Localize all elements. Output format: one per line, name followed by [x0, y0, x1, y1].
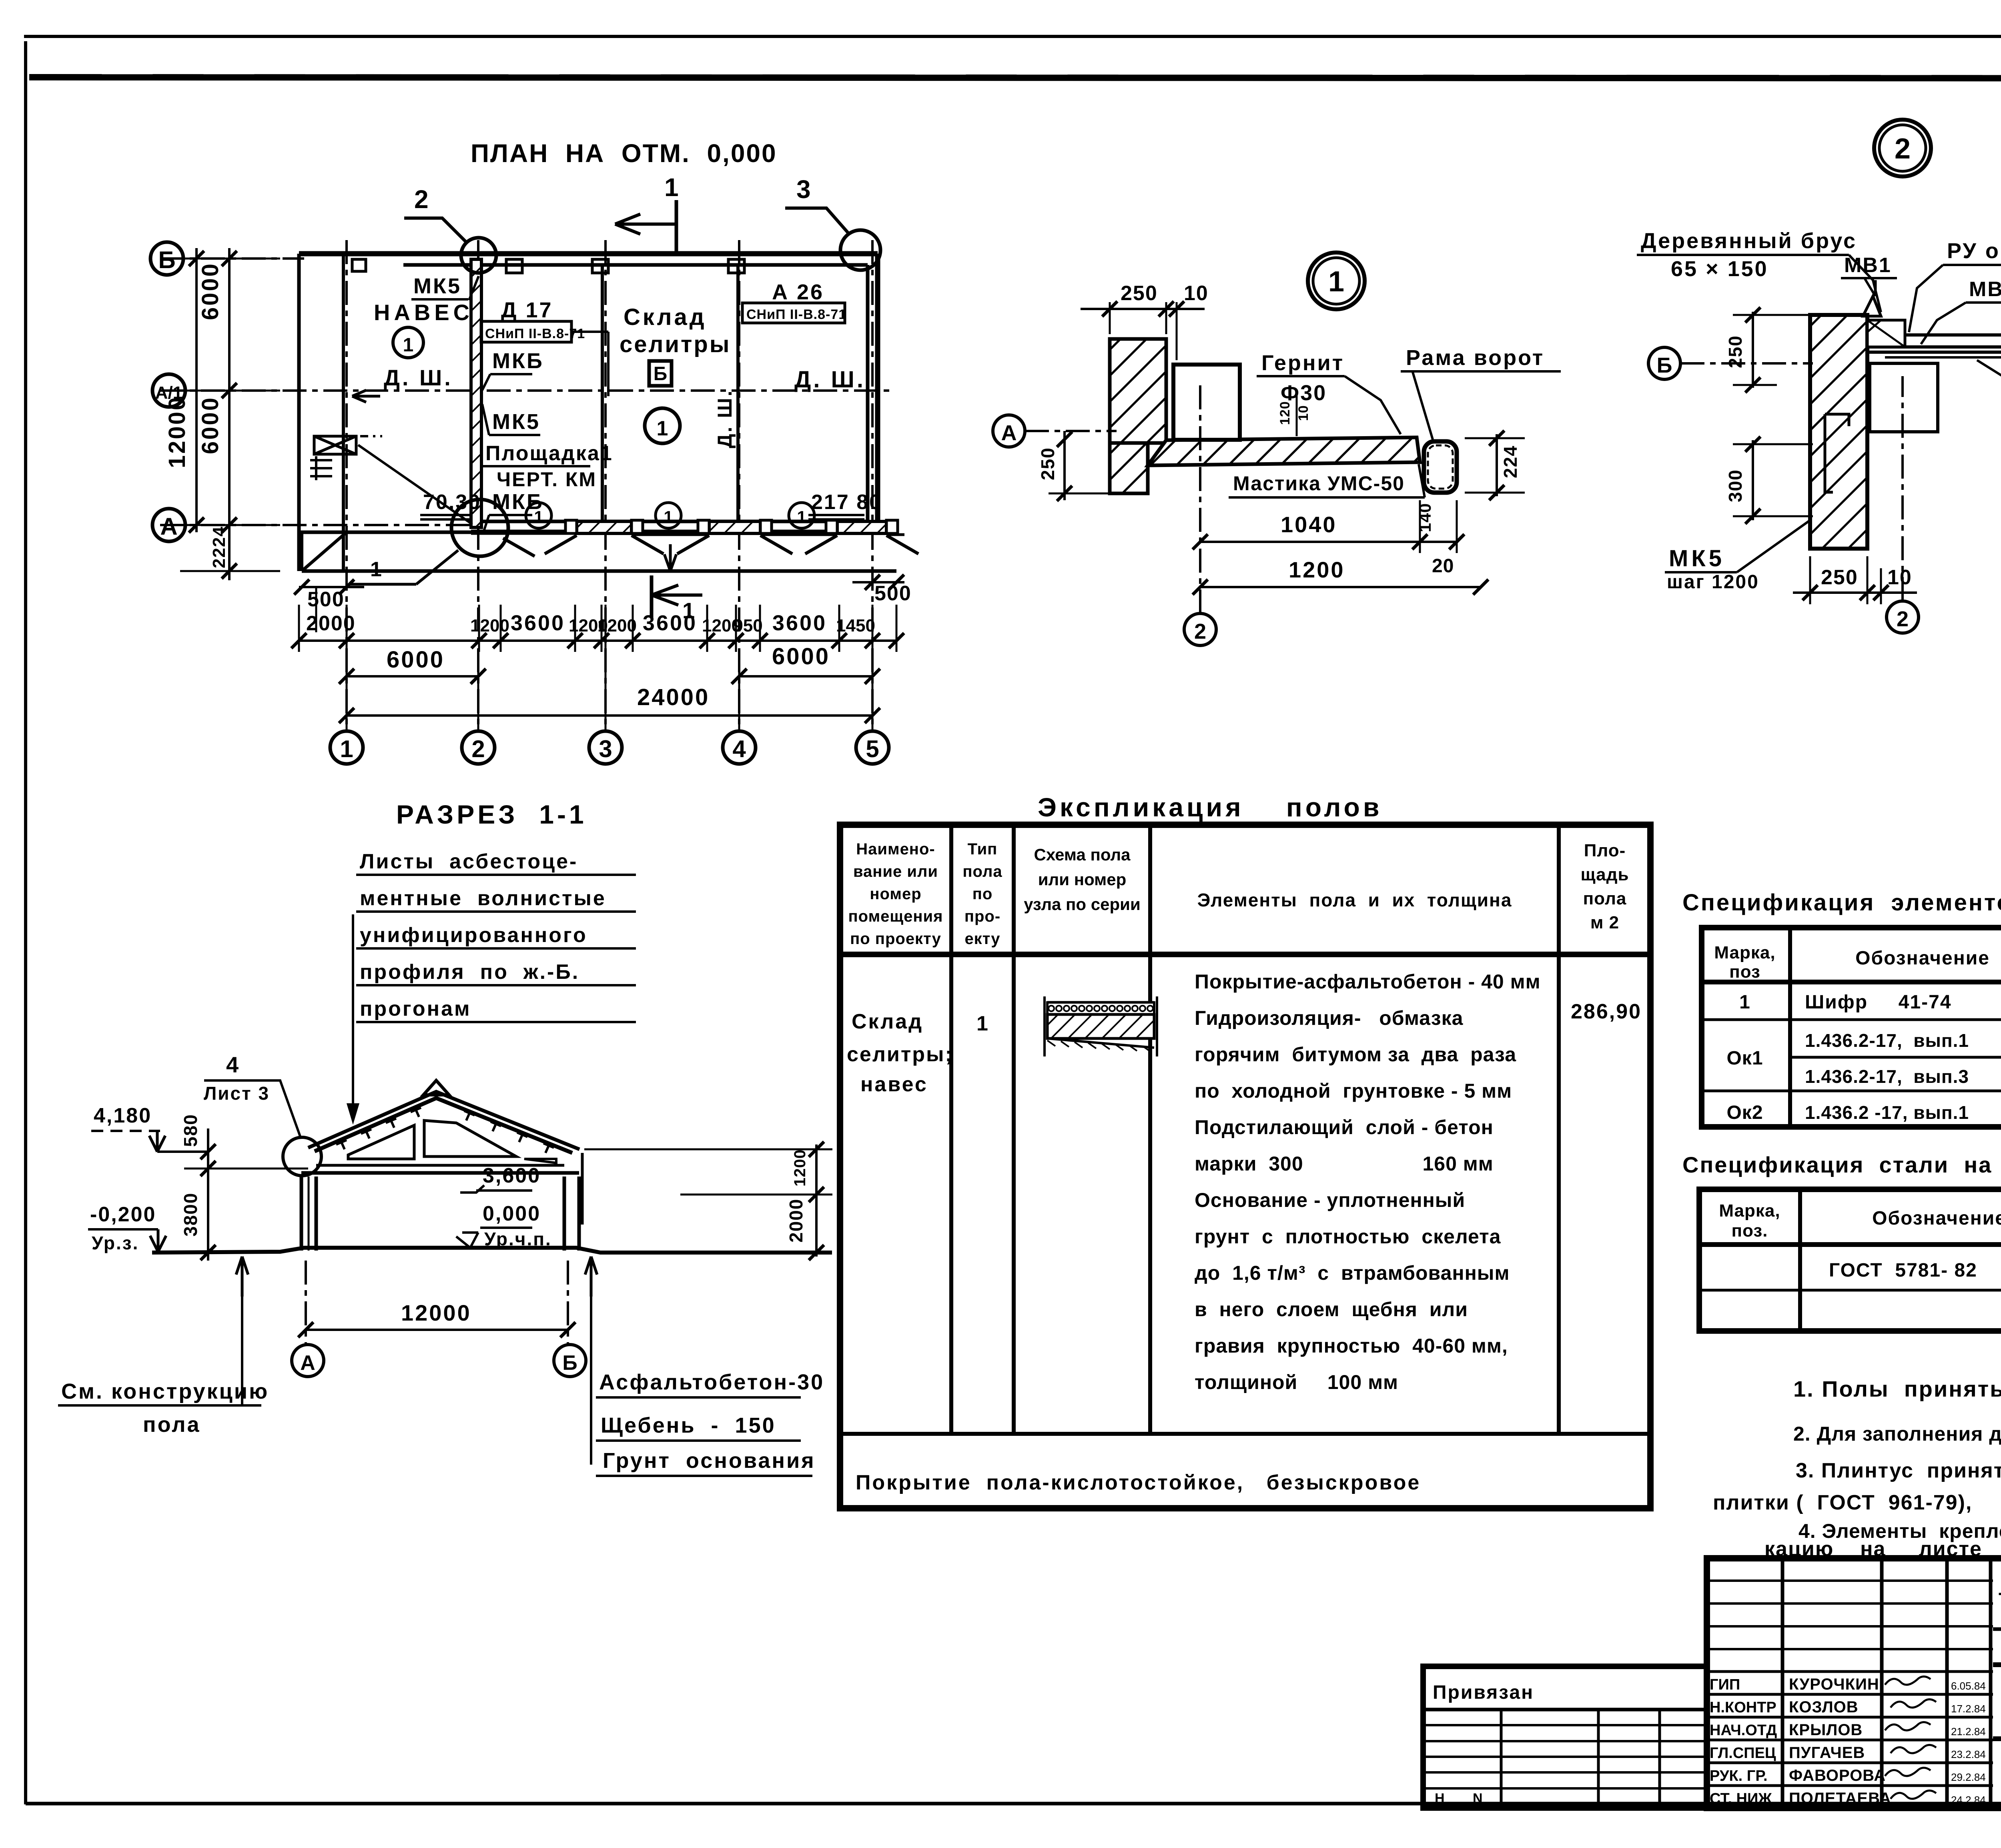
detail1 dim 224 right — [1496, 434, 1498, 496]
svg-text:екту: екту — [964, 930, 1000, 948]
svg-text:4,180: 4,180 — [94, 1104, 152, 1127]
svg-text:Б: Б — [562, 1351, 577, 1375]
big node circle at axis2/А — [451, 499, 508, 556]
svg-text:-0,200: -0,200 — [90, 1203, 156, 1226]
partition at axis 4 — [736, 265, 740, 521]
svg-text:Шифр 41-74: Шифр 41-74 — [1805, 992, 1952, 1013]
svg-text:помещения: помещения — [848, 908, 943, 925]
svg-text:21.2.84: 21.2.84 — [1951, 1726, 1986, 1738]
svg-text:СТ. НИЖ: СТ. НИЖ — [1710, 1790, 1772, 1807]
svg-text:МК5: МК5 — [413, 274, 461, 298]
svg-text:Пло-: Пло- — [1584, 841, 1626, 860]
svg-text:А: А — [1001, 421, 1017, 445]
svg-text:номер: номер — [870, 885, 921, 903]
detail2 axis Б circle — [1648, 347, 1680, 379]
detail1 axis А circle — [993, 415, 1025, 447]
svg-text:щадь: щадь — [1580, 865, 1629, 884]
svg-text:Схема пола: Схема пола — [1034, 845, 1131, 864]
svg-text:МКБ: МКБ — [492, 349, 544, 373]
svg-text:ГЛ.СПЕЦ: ГЛ.СПЕЦ — [1710, 1745, 1776, 1762]
plan top wall (double line) — [299, 251, 878, 257]
svg-text:6000: 6000 — [197, 396, 223, 454]
svg-text:217 80: 217 80 — [811, 491, 882, 514]
svg-text:1.436.2 -17, вып.1: 1.436.2 -17, вып.1 — [1805, 1102, 1969, 1123]
svg-text:шаг 1200: шаг 1200 — [1667, 571, 1759, 593]
svg-text:286,90: 286,90 — [1571, 1000, 1642, 1023]
svg-text:140: 140 — [1416, 503, 1434, 532]
column marks on top wall — [506, 259, 522, 273]
ground line — [152, 1248, 832, 1253]
svg-text:2000: 2000 — [306, 612, 356, 635]
СНиП label right — [742, 303, 845, 323]
svg-text:1.436.2-17, вып.3: 1.436.2-17, вып.3 — [1805, 1066, 1969, 1087]
СНиП box left — [481, 321, 571, 342]
signature grid verticals — [1781, 1558, 1784, 1808]
svg-text:1: 1 — [664, 507, 673, 526]
svg-text:3800: 3800 — [180, 1193, 201, 1237]
svg-text:м 2: м 2 — [1590, 913, 1619, 932]
leader from note to roof — [352, 914, 354, 1120]
svg-text:20: 20 — [1432, 555, 1454, 577]
svg-text:навес: навес — [860, 1073, 928, 1096]
svg-text:500: 500 — [307, 588, 345, 611]
svg-text:пола: пола — [962, 863, 1002, 880]
svg-text:Д 17: Д 17 — [501, 298, 553, 322]
svg-text:Наимено-: Наимено- — [856, 840, 935, 858]
right dims 1200/2000 — [815, 1144, 818, 1257]
svg-text:10: 10 — [1296, 405, 1311, 421]
detail2 white box below sash — [1870, 363, 1938, 432]
detail2 МВ1 bolt symbol — [1863, 296, 1881, 316]
svg-text:Привязан: Привязан — [1433, 1682, 1534, 1703]
svg-text:по: по — [972, 885, 993, 903]
svg-text:Лист 3: Лист 3 — [204, 1083, 270, 1104]
svg-text:Деревянный брус: Деревянный брус — [1641, 229, 1857, 253]
svg-text:Марка,: Марка, — [1719, 1201, 1780, 1221]
partition at axis 3 — [601, 265, 604, 521]
svg-text:1: 1 — [797, 507, 806, 526]
svg-text:250: 250 — [1037, 447, 1058, 480]
svg-text:грунт с плотностью скелета: грунт с плотностью скелета — [1195, 1225, 1501, 1248]
sheet outer border bottom line — [26, 1802, 2001, 1806]
svg-text:Б: Б — [654, 363, 668, 385]
svg-text:12000: 12000 — [401, 1300, 471, 1325]
left axis circle А — [152, 509, 185, 541]
bottom axis circles 1-5 — [330, 731, 363, 764]
plan right wall — [875, 254, 880, 532]
svg-text:МВ1: МВ1 — [1844, 254, 1892, 277]
svg-text:Д. Ш.: Д. Ш. — [384, 365, 453, 390]
svg-text:2: 2 — [1194, 619, 1206, 643]
detail1 axis 2 circle — [1184, 613, 1216, 645]
right column — [563, 1177, 566, 1251]
bottom dim row 6000 + 6000 — [347, 675, 478, 677]
svg-text:А: А — [300, 1351, 315, 1375]
svg-text:СНиП II-В.8-71: СНиП II-В.8-71 — [485, 326, 585, 341]
door threshold pads on bottom wall — [577, 521, 632, 533]
floor type circle 1 (навес) — [393, 327, 423, 358]
opening sill lines — [632, 533, 709, 536]
svg-text:1200: 1200 — [470, 616, 509, 635]
svg-text:6000: 6000 — [197, 262, 223, 320]
svg-text:3,600: 3,600 — [483, 1164, 541, 1187]
svg-text:КОЗЛОВ: КОЗЛОВ — [1789, 1698, 1859, 1716]
svg-text:по холодной грунтовке - 5 мм: по холодной грунтовке - 5 мм — [1195, 1080, 1512, 1102]
svg-text:2. Для заполнения деформационн: 2. Для заполнения деформационных швов пр… — [1793, 1423, 2001, 1445]
svg-text:3. Плинтус принять из керами: 3. Плинтус принять из керамической кисло… — [1796, 1459, 2001, 1482]
bottom dim row 2000 + bays — [299, 639, 896, 642]
explication table frame — [840, 825, 1650, 1508]
detail2 sash horizontal member — [1867, 335, 2001, 347]
hatched wall on axis 2 — [471, 259, 481, 527]
svg-text:6.05.84: 6.05.84 — [1951, 1680, 1986, 1692]
svg-text:в него слоем щебня или: в него слоем щебня или — [1195, 1298, 1468, 1321]
svg-text:Т.п 705-1-159 84: Т.п 705-1-159 84 — [1999, 1589, 2001, 1611]
svg-text:1: 1 — [682, 598, 695, 623]
section axis А circle — [292, 1345, 324, 1377]
left axis circle А/1 — [152, 374, 185, 407]
navес inner line at axis 1 — [342, 254, 345, 571]
svg-text:МК5: МК5 — [492, 410, 540, 434]
detail1 masonry wall hatched — [1110, 339, 1166, 443]
svg-text:КРЫЛОВ: КРЫЛОВ — [1789, 1721, 1863, 1739]
svg-text:1200: 1200 — [597, 616, 637, 635]
svg-text:1200: 1200 — [791, 1149, 809, 1187]
detail2 bracket inside wall — [1825, 414, 1849, 492]
axis Б dash-dot line — [160, 257, 304, 260]
svg-text:1: 1 — [403, 335, 414, 356]
svg-text:300: 300 — [1725, 469, 1746, 502]
spec2 table frame — [1699, 1189, 2001, 1331]
up arrow right at ground — [585, 1257, 597, 1297]
svg-text:Склад: Склад — [624, 304, 707, 330]
section mark 3 at top right — [840, 230, 880, 270]
svg-text:1040: 1040 — [1281, 512, 1337, 537]
left vertical dimension line 6000/6000/2224 — [228, 248, 231, 580]
svg-text:Покрытие пола-кислотостойкое,: Покрытие пола-кислотостойкое, безыскрово… — [856, 1471, 1421, 1494]
svg-text:ФАВОРОВА: ФАВОРОВА — [1789, 1767, 1886, 1784]
svg-text:1: 1 — [370, 558, 382, 581]
Б box — [649, 361, 672, 386]
truss web openings — [348, 1125, 414, 1159]
apex cap — [423, 1080, 449, 1095]
up arrow left at ground — [236, 1257, 248, 1297]
svg-text:прогонам: прогонам — [360, 997, 471, 1020]
bottom dim row 24000 — [347, 714, 872, 717]
svg-text:1: 1 — [534, 507, 543, 526]
svg-text:Гернит: Гернит — [1261, 351, 1344, 375]
svg-text:500: 500 — [874, 582, 912, 605]
svg-text:24000: 24000 — [637, 684, 710, 710]
svg-text:Покрытие-асфальтобетон - 40 мм: Покрытие-асфальтобетон - 40 мм — [1195, 970, 1541, 993]
svg-text:3: 3 — [796, 175, 811, 204]
svg-text:1.436.2-17, вып.1: 1.436.2-17, вып.1 — [1805, 1030, 1969, 1051]
svg-text:А: А — [160, 513, 177, 540]
roof purlin clips — [336, 1140, 347, 1149]
svg-text:23.2.84: 23.2.84 — [1951, 1748, 1986, 1760]
signature grid thin rows (top empty) — [1707, 1579, 1993, 1582]
svg-text:1: 1 — [664, 173, 679, 202]
sheet name row — [1993, 1736, 2001, 1741]
svg-text:6000: 6000 — [387, 647, 445, 673]
svg-text:580: 580 — [180, 1114, 201, 1147]
svg-text:Грунт основания: Грунт основания — [603, 1449, 816, 1473]
plan bottom wall — [471, 530, 878, 535]
привязан block — [1423, 1666, 1707, 1808]
section axis Б circle — [554, 1345, 586, 1377]
svg-text:2: 2 — [1895, 133, 1911, 165]
svg-text:Обозначение: Обозначение — [1872, 1208, 2001, 1229]
svg-text:Н: Н — [1435, 1791, 1445, 1806]
svg-text:65 × 150: 65 × 150 — [1671, 257, 1768, 281]
arrow into navес on А/1 — [352, 390, 380, 402]
svg-text:РАЗРЕЗ 1-1: РАЗРЕЗ 1-1 — [396, 800, 587, 829]
navес left edge — [297, 254, 301, 571]
svg-text:1: 1 — [1739, 992, 1750, 1013]
svg-text:Б: Б — [1657, 353, 1672, 377]
svg-text:по проекту: по проекту — [850, 930, 941, 948]
svg-text:МК5: МК5 — [1669, 545, 1725, 571]
svg-text:А 26: А 26 — [772, 280, 824, 304]
svg-text:Н.КОНТР: Н.КОНТР — [1710, 1699, 1776, 1716]
svg-text:ПУГАЧЕВ: ПУГАЧЕВ — [1789, 1744, 1865, 1762]
truss bottom chord — [301, 1171, 579, 1175]
svg-text:3600: 3600 — [772, 611, 827, 635]
svg-text:Склад: Склад — [852, 1010, 923, 1033]
svg-text:5: 5 — [866, 736, 879, 762]
svg-text:Б: Б — [158, 247, 175, 273]
svg-text:Мастика УМС-50: Мастика УМС-50 — [1233, 472, 1405, 495]
svg-text:узла по серии: узла по серии — [1024, 895, 1141, 914]
svg-text:ГОСТ 5781- 82: ГОСТ 5781- 82 — [1829, 1260, 1977, 1281]
detail1 gate frame tube — [1424, 441, 1457, 493]
svg-text:РУ обрезанная: РУ обрезанная — [1947, 239, 2001, 263]
signature name rows — [1707, 1670, 1993, 1673]
svg-text:Д. Ш.: Д. Ш. — [714, 389, 736, 448]
node circle 4 on eave — [283, 1137, 321, 1176]
svg-text:Подстилающий слой - бетон: Подстилающий слой - бетон — [1195, 1116, 1494, 1138]
section arrow 1 top — [675, 200, 678, 256]
svg-text:КУРОЧКИН: КУРОЧКИН — [1789, 1676, 1879, 1693]
svg-text:4: 4 — [732, 736, 746, 762]
svg-text:24.2.84: 24.2.84 — [1951, 1794, 1986, 1806]
svg-text:12000: 12000 — [164, 396, 190, 468]
svg-text:Экспликация полов: Экспликация полов — [1038, 792, 1382, 822]
left axis circle Б — [150, 242, 183, 275]
sheet outer border top line — [24, 35, 2001, 38]
svg-text:0,000: 0,000 — [483, 1202, 541, 1225]
svg-text:Основание - уплотненный: Основание - уплотненный — [1195, 1189, 1465, 1211]
svg-text:селитры: селитры — [620, 331, 731, 357]
svg-text:Обозначение: Обозначение — [1855, 948, 1990, 969]
svg-text:горячим битумом за два раза: горячим битумом за два раза — [1195, 1043, 1516, 1066]
svg-text:1: 1 — [1328, 266, 1344, 298]
svg-text:Щебень - 150: Щебень - 150 — [601, 1413, 776, 1437]
axis А/1 dash-dot line — [160, 389, 892, 392]
svg-text:1200: 1200 — [1289, 557, 1345, 582]
svg-text:унифицированного: унифицированного — [360, 924, 587, 947]
svg-text:ПОЛЕТАЕВА: ПОЛЕТАЕВА — [1789, 1790, 1891, 1807]
svg-text:поз: поз — [1729, 962, 1760, 982]
svg-text:Рама ворот: Рама ворот — [1406, 346, 1544, 370]
svg-text:гравия крупностью 40-60 мм,: гравия крупностью 40-60 мм, — [1195, 1335, 1508, 1357]
svg-text:Д. Ш.: Д. Ш. — [794, 367, 866, 393]
detail2 dim 250 vertical — [1752, 312, 1754, 388]
svg-text:250: 250 — [1725, 335, 1746, 368]
svg-text:Площадка1: Площадка1 — [485, 442, 613, 465]
svg-text:плитки ( ГОСТ 961-79),: плитки ( ГОСТ 961-79), h = 300 мм. — [1713, 1491, 2001, 1514]
dim 3800 — [207, 1169, 209, 1261]
sheet inner frame thick top line — [29, 77, 2001, 78]
svg-text:до 1,6 т/м³ с втрамбованным: до 1,6 т/м³ с втрамбованным — [1195, 1262, 1510, 1284]
section arrow 1 bottom — [650, 575, 654, 618]
axis А dash-dot line — [160, 524, 472, 526]
svg-text:17.2.84: 17.2.84 — [1951, 1703, 1986, 1715]
svg-text:Ур.ч.п.: Ур.ч.п. — [484, 1229, 552, 1249]
svg-text:Ур.з.: Ур.з. — [92, 1233, 139, 1253]
door opening ramps splay lines — [545, 535, 577, 554]
right wall panel edge — [581, 1153, 584, 1225]
svg-text:толщиной 100 мм: толщиной 100 мм — [1195, 1371, 1398, 1393]
svg-text:про-: про- — [964, 908, 1000, 925]
svg-text:2: 2 — [1897, 607, 1909, 631]
svg-text:2: 2 — [414, 185, 429, 214]
svg-text:поз.: поз. — [1732, 1221, 1768, 1241]
svg-text:250: 250 — [1821, 566, 1858, 589]
detail1 dim 1040/140 — [1200, 541, 1457, 543]
svg-text:РУК. ГР.: РУК. ГР. — [1710, 1768, 1768, 1784]
spec1 table frame — [1702, 928, 2001, 1127]
leader 1 from node circle — [416, 550, 458, 584]
navес apron diagonal — [302, 532, 347, 571]
svg-text:1450: 1450 — [836, 616, 875, 635]
svg-text:3600: 3600 — [511, 611, 565, 635]
svg-text:Ок2: Ок2 — [1726, 1102, 1763, 1123]
svg-text:Ок1: Ок1 — [1726, 1048, 1763, 1069]
svg-text:29.2.84: 29.2.84 — [1951, 1771, 1986, 1783]
svg-text:марки 300: марки 300 160 мм — [1195, 1152, 1494, 1175]
svg-text:2: 2 — [471, 736, 485, 762]
detail2 masonry wall hatched — [1810, 315, 1867, 549]
detail2 axis 2 circle bottom — [1887, 601, 1919, 633]
svg-text:СНиП II-В.8-71: СНиП II-В.8-71 — [746, 307, 846, 322]
floor type circle 1 (склад) — [645, 408, 680, 443]
svg-text:профиля по ж.-Б.: профиля по ж.-Б. — [360, 960, 579, 984]
detail1 dim 1200 — [1200, 586, 1481, 588]
svg-text:НАЧ.ОТД: НАЧ.ОТД — [1710, 1722, 1777, 1739]
bottom dim row 500 (left) — [299, 586, 364, 588]
svg-text:1: 1 — [657, 417, 668, 440]
svg-text:ЧЕРТ. КМ: ЧЕРТ. КМ — [497, 468, 597, 491]
svg-text:вание или: вание или — [853, 863, 938, 880]
svg-text:950: 950 — [733, 616, 762, 635]
detail1 white box (door frame block) — [1173, 365, 1240, 440]
svg-text:3: 3 — [599, 736, 612, 762]
svg-text:селитры;: селитры; — [847, 1043, 953, 1066]
ground/apron bottom line — [302, 569, 896, 573]
svg-text:ПЛАН НА ОТМ. 0,000: ПЛАН НА ОТМ. 0,000 — [471, 139, 777, 168]
title block right part: top row Т.п — [1993, 1628, 2001, 1631]
down arrow at middle opening — [664, 544, 676, 571]
svg-text:Марка,: Марка, — [1714, 943, 1775, 962]
detail2 dim 250/10 bottom — [1793, 591, 1917, 594]
svg-text:2000: 2000 — [786, 1199, 806, 1243]
svg-text:ГИП: ГИП — [1710, 1676, 1740, 1693]
svg-text:ментные волнистые: ментные волнистые — [360, 887, 606, 910]
svg-text:2224: 2224 — [209, 526, 229, 568]
svg-text:Элементы пола и их толщина: Элементы пола и их толщина — [1197, 890, 1512, 910]
svg-text:6000: 6000 — [772, 643, 830, 669]
axis 1..5 vertical dash-dot lines — [345, 240, 348, 728]
node 1 title circle — [1308, 253, 1365, 309]
title block main row line — [1993, 1662, 2001, 1667]
svg-text:10: 10 — [1184, 282, 1209, 305]
detail1 floor slab hatched — [1148, 437, 1420, 465]
small type circles on bottom row — [526, 503, 551, 528]
svg-text:224: 224 — [1500, 445, 1521, 478]
svg-text:пола: пола — [1583, 889, 1627, 908]
svg-text:Спецификация стали на дефор: Спецификация стали на деформационные швы… — [1682, 1152, 2001, 1177]
navес bottom edge / apron top — [299, 531, 471, 534]
svg-text:См. конструкцию: См. конструкцию — [61, 1379, 269, 1403]
node 2 title circle — [1874, 120, 1931, 176]
svg-text:НАВЕС: НАВЕС — [374, 300, 473, 325]
title block outer frame — [1707, 1558, 2001, 1808]
bottom dim row 500 (right) — [852, 581, 904, 583]
svg-text:N: N — [1473, 1791, 1483, 1806]
hoist symbol (таль) — [314, 436, 356, 454]
detail1 dim 250/10 top — [1109, 302, 1111, 334]
svg-text:Спецификация элементов запол: Спецификация элементов заполнения проемо… — [1682, 890, 2001, 916]
detail2 wood block on top — [1867, 320, 1905, 347]
svg-text:пола: пола — [143, 1413, 201, 1437]
svg-text:Гидроизоляция- обмазка: Гидроизоляция- обмазка — [1195, 1007, 1464, 1029]
svg-text:120: 120 — [1277, 401, 1293, 425]
svg-text:1. Полы приняты по СНиП II: 1. Полы приняты по СНиП II - 8.8 -71. — [1793, 1376, 2001, 1401]
detail2 dim 300 vertical — [1752, 440, 1754, 520]
floor schema drawing — [1047, 1001, 1154, 1004]
svg-text:10: 10 — [1887, 566, 1912, 589]
section mark 2 at top — [461, 238, 496, 273]
svg-text:или номер: или номер — [1038, 870, 1127, 889]
detail1 dim 250 left — [1063, 431, 1066, 500]
svg-text:4: 4 — [226, 1052, 239, 1077]
section bottom dim 12000 — [306, 1329, 568, 1331]
svg-text:Листы асбестоце-: Листы асбестоце- — [360, 850, 578, 873]
dim 580 — [207, 1128, 209, 1173]
svg-text:1: 1 — [340, 736, 353, 762]
roof truss outline — [315, 1098, 572, 1153]
svg-text:250: 250 — [1121, 282, 1158, 305]
left column — [300, 1177, 303, 1251]
svg-text:1: 1 — [976, 1012, 989, 1035]
sheet outer border left line — [24, 41, 27, 1804]
svg-text:МВ2: МВ2 — [1969, 278, 2001, 301]
left vertical dimension line 12000 — [195, 248, 198, 532]
svg-text:Тип: Тип — [968, 840, 998, 858]
svg-text:Асфальтобетон-30: Асфальтобетон-30 — [599, 1370, 824, 1394]
